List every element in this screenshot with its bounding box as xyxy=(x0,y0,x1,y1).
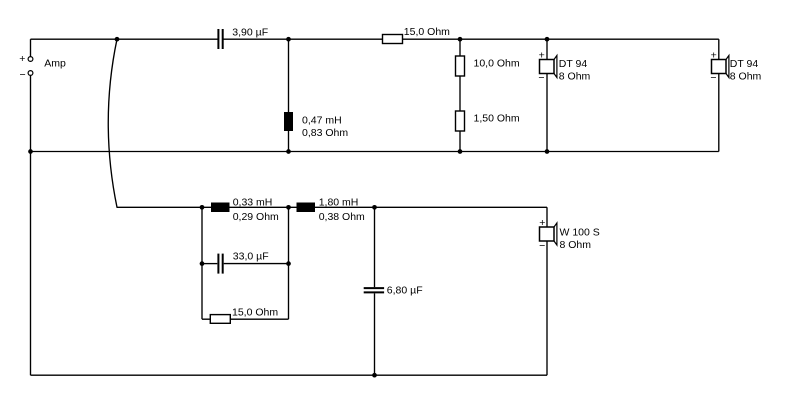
svg-text:0,83 Ohm: 0,83 Ohm xyxy=(302,127,348,139)
wire + terminal lead xyxy=(30,39,32,56)
svg-text:Amp: Amp xyxy=(44,58,66,70)
value label 8 Ohm SP3 xyxy=(560,239,592,251)
node lower rail / RLC left junction xyxy=(200,205,205,210)
node C2 branch right junction xyxy=(286,261,291,266)
svg-text:+: + xyxy=(539,217,545,229)
wire lower rail xyxy=(117,206,548,208)
node middle rail / L1 junction xyxy=(286,149,291,154)
amp terminal - xyxy=(28,71,33,76)
wire left branch of RLC group xyxy=(201,207,203,319)
resistor R4 15,0 Ohm xyxy=(210,315,230,324)
svg-text:8 Ohm: 8 Ohm xyxy=(730,71,762,83)
svg-text:8 Ohm: 8 Ohm xyxy=(559,71,591,83)
svg-text:1,50 Ohm: 1,50 Ohm xyxy=(474,113,520,125)
svg-text:−: − xyxy=(539,240,545,252)
value label 1,50 Ohm xyxy=(474,113,520,125)
wire bottom return rail xyxy=(31,374,548,376)
wire vertical branch through SP1 xyxy=(546,39,548,151)
svg-text:0,47 mH: 0,47 mH xyxy=(302,114,342,126)
value label 8 Ohm SP1 xyxy=(559,71,591,83)
wire capacitor C2 branch left xyxy=(202,263,217,265)
polarity label - amp xyxy=(20,69,26,81)
svg-text:1,80 mH: 1,80 mH xyxy=(319,196,359,208)
node lower rail / C3 junction xyxy=(372,205,377,210)
value label 33,0 uF xyxy=(233,250,269,262)
node top rail / SP1 junction xyxy=(545,37,550,42)
svg-text:W 100 S: W 100 S xyxy=(560,226,600,238)
svg-text:3,90 µF: 3,90 µF xyxy=(232,26,268,38)
value label 0,33 mH xyxy=(233,196,273,208)
svg-text:+: + xyxy=(539,50,545,62)
inductor L3 1,80 mH xyxy=(297,203,316,213)
wire vertical branch through SP2 xyxy=(718,39,720,151)
value label 0,83 Ohm xyxy=(302,127,348,139)
speaker SP2 DT 94 xyxy=(712,56,729,78)
svg-text:−: − xyxy=(710,72,716,84)
inductor L1 0,47 mH xyxy=(284,112,293,131)
capacitor C1 3,90 uF xyxy=(218,29,222,49)
wire top rail left of C1 xyxy=(31,38,218,40)
value label 8 Ohm SP2 xyxy=(730,71,762,83)
pin label - SP3 xyxy=(539,240,545,252)
svg-text:DT 94: DT 94 xyxy=(559,58,588,70)
svg-text:+: + xyxy=(19,53,25,65)
value label 6,80 uF xyxy=(387,285,423,297)
value label 0,38 Ohm xyxy=(319,211,365,223)
wire middle return rail xyxy=(31,151,719,153)
capacitor C2 33,0 uF xyxy=(218,254,222,274)
node middle rail / SP1 junction xyxy=(545,149,550,154)
svg-text:10,0 Ohm: 10,0 Ohm xyxy=(474,58,520,70)
wire capacitor C2 branch right xyxy=(224,263,289,265)
wire curved feed to low-pass section xyxy=(108,39,117,207)
speaker SP3 W 100 S xyxy=(540,223,557,245)
inductor L2 0,33 mH xyxy=(211,203,230,213)
node top rail / L1 junction xyxy=(286,37,291,42)
wire right branch of RLC group xyxy=(288,207,290,319)
resistor R1 15,0 Ohm xyxy=(383,35,403,44)
svg-text:DT 94: DT 94 xyxy=(730,58,759,70)
svg-text:0,33 mH: 0,33 mH xyxy=(233,196,273,208)
node C2 branch left junction xyxy=(200,261,205,266)
value label 15,0 Ohm top xyxy=(404,26,450,38)
svg-text:15,0 Ohm: 15,0 Ohm xyxy=(232,307,278,319)
name label DT 94 second xyxy=(730,58,759,70)
node middle rail / R3 junction xyxy=(458,149,463,154)
value label 15,0 Ohm bottom xyxy=(232,307,278,319)
node lower rail / RLC right junction xyxy=(286,205,291,210)
value label 3,90 uF xyxy=(232,26,268,38)
wire vertical branch through L1 xyxy=(288,39,290,151)
wire - terminal lead down left side xyxy=(30,75,32,375)
node top rail / curve junction xyxy=(115,37,120,42)
node middle rail left junction xyxy=(28,149,33,154)
wire vertical branch through R2 R3 xyxy=(459,39,461,151)
svg-text:−: − xyxy=(538,72,544,84)
svg-text:33,0 µF: 33,0 µF xyxy=(233,250,269,262)
svg-text:6,80 µF: 6,80 µF xyxy=(387,285,423,297)
value label 0,47 mH xyxy=(302,114,342,126)
wire resistor R4 branch xyxy=(202,318,289,320)
wire vertical branch through C3 upper xyxy=(374,207,376,287)
wire top rail right of C1 xyxy=(224,38,719,40)
wire vertical branch through C3 lower xyxy=(374,293,376,375)
pin label + SP1 xyxy=(539,50,545,62)
pin label - SP1 xyxy=(538,72,544,84)
node top rail / R2 junction xyxy=(458,37,463,42)
name label W 100 S xyxy=(560,226,600,238)
svg-text:−: − xyxy=(20,69,26,81)
polarity label + amp xyxy=(19,53,25,65)
svg-text:+: + xyxy=(711,50,717,62)
svg-text:15,0 Ohm: 15,0 Ohm xyxy=(404,26,450,38)
pin label + SP3 xyxy=(539,217,545,229)
value label 10,0 Ohm xyxy=(474,58,520,70)
capacitor C3 6,80 uF xyxy=(364,288,384,292)
svg-text:0,38 Ohm: 0,38 Ohm xyxy=(319,211,365,223)
svg-text:8 Ohm: 8 Ohm xyxy=(560,239,592,251)
svg-text:0,29 Ohm: 0,29 Ohm xyxy=(233,211,279,223)
node bottom rail / C3 junction xyxy=(372,373,377,378)
pin label - SP2 xyxy=(710,72,716,84)
value label 1,80 mH xyxy=(319,196,359,208)
amp terminal + xyxy=(28,57,33,62)
name label DT 94 xyxy=(559,58,588,70)
resistor R2 10,0 Ohm xyxy=(456,56,465,76)
resistor R3 1,50 Ohm xyxy=(456,111,465,131)
name label Amp xyxy=(44,58,66,70)
pin label + SP2 xyxy=(711,50,717,62)
speaker SP1 DT 94 xyxy=(540,56,557,78)
wire vertical drop through SP3 xyxy=(546,207,548,375)
value label 0,29 Ohm xyxy=(233,211,279,223)
